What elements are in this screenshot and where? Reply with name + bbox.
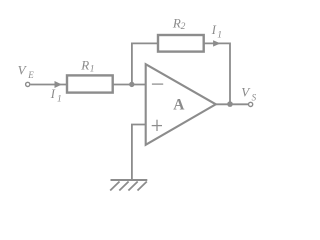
node VS output terminal (249, 102, 253, 106)
svg-text:2: 2 (181, 22, 186, 32)
op-amp U1 triangle (146, 64, 216, 145)
node VE input terminal (26, 82, 30, 86)
node junction at output (227, 101, 233, 107)
svg-text:1: 1 (90, 64, 95, 74)
label VE (18, 63, 35, 80)
wire feedback: junction up and right to R2 (132, 43, 158, 84)
current arrow I1 feedback (213, 40, 220, 46)
svg-text:I: I (211, 23, 217, 37)
resistor R2 (158, 35, 204, 52)
label I1 input (50, 87, 62, 104)
wire R1 to op-amp inverting input (112, 84, 146, 86)
svg-text:I: I (50, 87, 56, 101)
svg-text:S: S (252, 92, 257, 102)
svg-text:1: 1 (217, 30, 222, 40)
label R1 (80, 57, 94, 74)
op-amp non-inverting input plus sign (152, 120, 162, 131)
svg-text:R: R (172, 16, 181, 31)
svg-text:E: E (27, 70, 34, 80)
wire op-amp output to VS terminal (216, 103, 249, 105)
ground (110, 180, 147, 191)
svg-text:1: 1 (57, 94, 62, 104)
op-amp inverting input minus sign (152, 83, 163, 85)
label VS (241, 84, 256, 102)
wire non-inverting input to ground (132, 125, 146, 180)
svg-text:R: R (80, 57, 89, 72)
wire R2 to output node (204, 43, 230, 104)
resistor R1 (67, 75, 113, 92)
label R2 (172, 16, 186, 32)
wire input VE to R1 (31, 84, 67, 86)
svg-text:A: A (173, 97, 185, 114)
node junction at inverting input (129, 82, 134, 87)
label I1 feedback (211, 23, 222, 40)
current arrow I1 input (55, 81, 62, 88)
